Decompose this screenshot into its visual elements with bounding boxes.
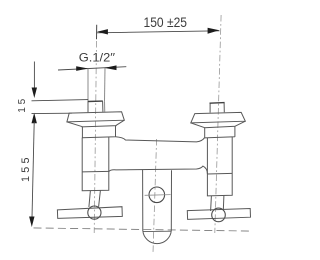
- left valve seam: [82, 170, 109, 173]
- arrowhead left of 150 dim: [97, 29, 108, 34]
- arrowhead left of G dim: [76, 66, 88, 71]
- right handle hub circle: [212, 208, 226, 222]
- left flange skirt: [67, 120, 124, 127]
- dimension line G1/2: [58, 67, 126, 70]
- body bar bottom edge: [109, 166, 207, 174]
- right valve seam: [207, 172, 232, 175]
- svg-text:150 ±25: 150 ±25: [144, 15, 188, 30]
- right valve stem: [211, 196, 224, 212]
- dimension line 150: [97, 31, 220, 33]
- right supply neck: [210, 103, 224, 113]
- extension line flange top: [32, 112, 73, 114]
- left valve stem: [89, 190, 101, 207]
- spout knob circle: [149, 187, 165, 203]
- left valve body: [82, 137, 109, 191]
- extension line right pipe edge: [104, 68, 106, 101]
- left cross handle bar: [57, 207, 122, 219]
- spout line at reference: [143, 230, 172, 232]
- dashed reference line (tub rim): [34, 228, 253, 231]
- extension line neck top: [32, 100, 89, 101]
- extension tick left centerline: [96, 25, 98, 39]
- centerline right pipe: [215, 15, 221, 233]
- svg-text:155: 155: [20, 158, 32, 183]
- right flange skirt: [191, 121, 246, 128]
- left neck outer thread line: [104, 101, 106, 112]
- arrowhead right of 150 dim: [208, 28, 220, 34]
- left supply neck: [88, 101, 103, 112]
- centerline left pipe: [94, 41, 96, 233]
- arrowhead down of 155 dim: [29, 217, 34, 228]
- extension line left pipe edge: [87, 69, 89, 102]
- arrowhead up of 15 dim: [32, 113, 37, 124]
- arrowhead right of G dim: [104, 65, 116, 70]
- left neck top line: [88, 100, 103, 102]
- right cross handle bar: [187, 209, 250, 220]
- right collar below flange: [204, 126, 235, 138]
- spout knob horizontal centerline: [145, 194, 171, 197]
- right flange (escutcheon): [191, 112, 246, 123]
- svg-text:G.1/2′′: G.1/2′′: [79, 51, 115, 65]
- right neck top line: [210, 102, 225, 105]
- dimension line 155: [32, 122, 34, 222]
- spout body capsule: [143, 170, 172, 244]
- right valve body: [207, 137, 232, 196]
- body bar top edge: [116, 137, 205, 142]
- left collar below flange: [82, 126, 116, 138]
- dimension line 15 upper: [33, 62, 35, 94]
- centerline spout: [153, 139, 157, 253]
- left handle hub circle: [88, 206, 101, 219]
- arrowhead down of 15 dim: [32, 88, 37, 99]
- left flange (escutcheon): [67, 112, 124, 122]
